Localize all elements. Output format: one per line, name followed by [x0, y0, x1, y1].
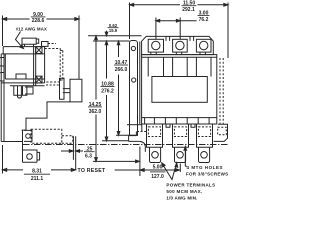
power pad 1 [150, 147, 161, 162]
screw box X bottom [36, 76, 42, 83]
block 3 hidden clamp dashed [198, 127, 210, 137]
power terminal block 2 [173, 124, 189, 147]
dim 10.88 line [106, 42, 108, 140]
svg-text:FOR 3/8"SCREWS: FOR 3/8"SCREWS [186, 171, 228, 176]
right hidden edge [220, 58, 223, 124]
dim text 3.00/76.2 [198, 10, 210, 22]
svg-text:362.0: 362.0 [89, 109, 102, 115]
bracket web [139, 42, 141, 125]
dim text 5.00/127.0 [150, 164, 166, 180]
back tab bump 2 [0, 73, 4, 82]
dim text 14.25/362.0 [88, 102, 102, 115]
coil detail [16, 74, 26, 79]
dim text 10.47/266.0 [114, 60, 128, 73]
ext line bracket bottom [116, 134, 136, 136]
dim text 10.88/276.2 [101, 81, 115, 94]
svg-text:266.0: 266.0 [115, 67, 128, 73]
svg-text:292.1: 292.1 [182, 7, 195, 13]
pad hole 2 [177, 152, 184, 159]
lever bar [70, 79, 82, 102]
power pad 3 [199, 147, 210, 162]
svg-text:15.9: 15.9 [109, 28, 118, 33]
armature section [36, 47, 45, 86]
reset block detail [27, 154, 33, 160]
dim 11.50/292.1 line [130, 4, 229, 6]
strip separators [166, 36, 194, 41]
lug circle 2 [176, 41, 184, 49]
dim 5.00 extensions [140, 147, 180, 177]
dim 0.62 tick [106, 31, 108, 35]
hidden reset rod step dashed [62, 136, 73, 144]
lug square 3 [196, 39, 211, 52]
back plate [1, 54, 4, 142]
coil terminal box [22, 38, 39, 46]
svg-text:TO RESET: TO RESET [78, 168, 106, 174]
ext line strip top [88, 35, 142, 37]
lug circle 3 [200, 41, 208, 49]
dim 5.00/127.0 line [115, 169, 180, 171]
hidden top edge dashes [48, 43, 56, 45]
pole columns [148, 57, 211, 76]
power pad 2 [175, 147, 186, 162]
svg-text:6.3: 6.3 [85, 154, 92, 160]
back tab bump 1 [0, 58, 4, 67]
body left edge lower [141, 124, 143, 131]
svg-text:5.00: 5.00 [153, 164, 163, 170]
dim 9.00 extension lines [3, 16, 80, 80]
leader 4 MTG HOLES [185, 149, 187, 167]
svg-text:500 MCM MAX.: 500 MCM MAX. [166, 189, 202, 194]
reset rod tip [18, 86, 22, 98]
small block right of rod [25, 87, 33, 94]
bracket hole top [131, 46, 135, 50]
svg-text:127.0: 127.0 [151, 174, 164, 180]
dim 8.31/211.1 line [3, 169, 76, 171]
dim text 9.00/228.6 [31, 12, 46, 24]
staircase [22, 102, 70, 130]
block 2 hidden clamp dashed [174, 127, 186, 137]
body ledge [142, 56, 217, 58]
dim 8.31 extension left [2, 145, 4, 174]
left foot corner [140, 141, 146, 152]
dim 14.25 line [95, 37, 97, 161]
power terminal block 3 [197, 124, 213, 147]
hidden base dashes [46, 84, 60, 86]
dim text 0.62/15.9 [108, 23, 119, 33]
hidden foot edge dashed [137, 131, 147, 133]
ext line unit bottom [93, 160, 136, 162]
body base rail [142, 118, 217, 124]
lug square 1 [148, 39, 163, 52]
top small terminal right [42, 42, 49, 47]
svg-text:1/0 AWG MIN.: 1/0 AWG MIN. [166, 195, 197, 200]
mounting bracket [130, 41, 138, 136]
body base line [10, 85, 45, 87]
foot block hole [26, 134, 31, 139]
dim 11.50 extensions [130, 3, 229, 59]
ext line body bottom short [127, 124, 142, 126]
ext line foot bottom [102, 140, 129, 142]
reset block [23, 150, 40, 162]
body core [5, 47, 33, 86]
svg-text:8.31: 8.31 [32, 169, 42, 175]
svg-text:#12 AWG MAX: #12 AWG MAX [16, 27, 47, 32]
pad hole 3 [201, 152, 208, 159]
right foot [214, 124, 228, 141]
reset rod pair [73, 136, 75, 169]
lug circle 1 [152, 41, 160, 49]
dim text 8.31/211.1 [24, 169, 50, 183]
lever bar linkage [63, 89, 70, 93]
ribs between blocks [166, 124, 195, 127]
right foot hidden hole dashed [218, 127, 227, 135]
dim 10.47 line [118, 42, 120, 135]
power terminal block 1 [147, 124, 163, 147]
body top cap [1, 47, 44, 54]
dim text 11.50/292.1 [182, 1, 197, 14]
dim 3.00 extensions [156, 18, 180, 40]
centerline [23, 144, 229, 146]
dim 9.00/228.6 line [3, 18, 80, 20]
dim 3.00/76.2 line [156, 20, 197, 22]
lower step profile [1, 130, 37, 162]
hidden contact block dashed [45, 49, 61, 83]
ext line bracket top [93, 40, 130, 42]
terminal strip outline [142, 36, 214, 54]
bracket hole bottom [132, 78, 136, 82]
dim text .25/6.3 [84, 147, 95, 160]
main body [142, 55, 217, 124]
guide rail [60, 78, 65, 99]
svg-text:76.2: 76.2 [199, 17, 209, 23]
tabs below lugs [151, 52, 206, 55]
screw box X top [36, 47, 42, 54]
leader #12 AWG MAX [16, 32, 23, 48]
svg-text:276.2: 276.2 [101, 88, 114, 94]
body bottom cap [1, 79, 44, 83]
svg-text:4 MTG HOLES: 4 MTG HOLES [187, 165, 224, 170]
pad hole 1 [152, 152, 159, 159]
nameplate [152, 77, 207, 103]
lower foot block [24, 130, 32, 141]
hidden reset mech dashed rect [31, 129, 62, 143]
dim .25/6.3 arrows [61, 150, 83, 152]
svg-text:POWER TERMINALS: POWER TERMINALS [166, 183, 215, 188]
svg-text:211.1: 211.1 [31, 176, 43, 182]
svg-text:228.6: 228.6 [32, 18, 45, 24]
foot bracket under body [14, 86, 27, 96]
block 1 hidden clamp dashed [148, 127, 160, 137]
left foot profile [129, 131, 140, 141]
lug square 2 [173, 39, 188, 52]
leader power terminals V [163, 165, 177, 180]
